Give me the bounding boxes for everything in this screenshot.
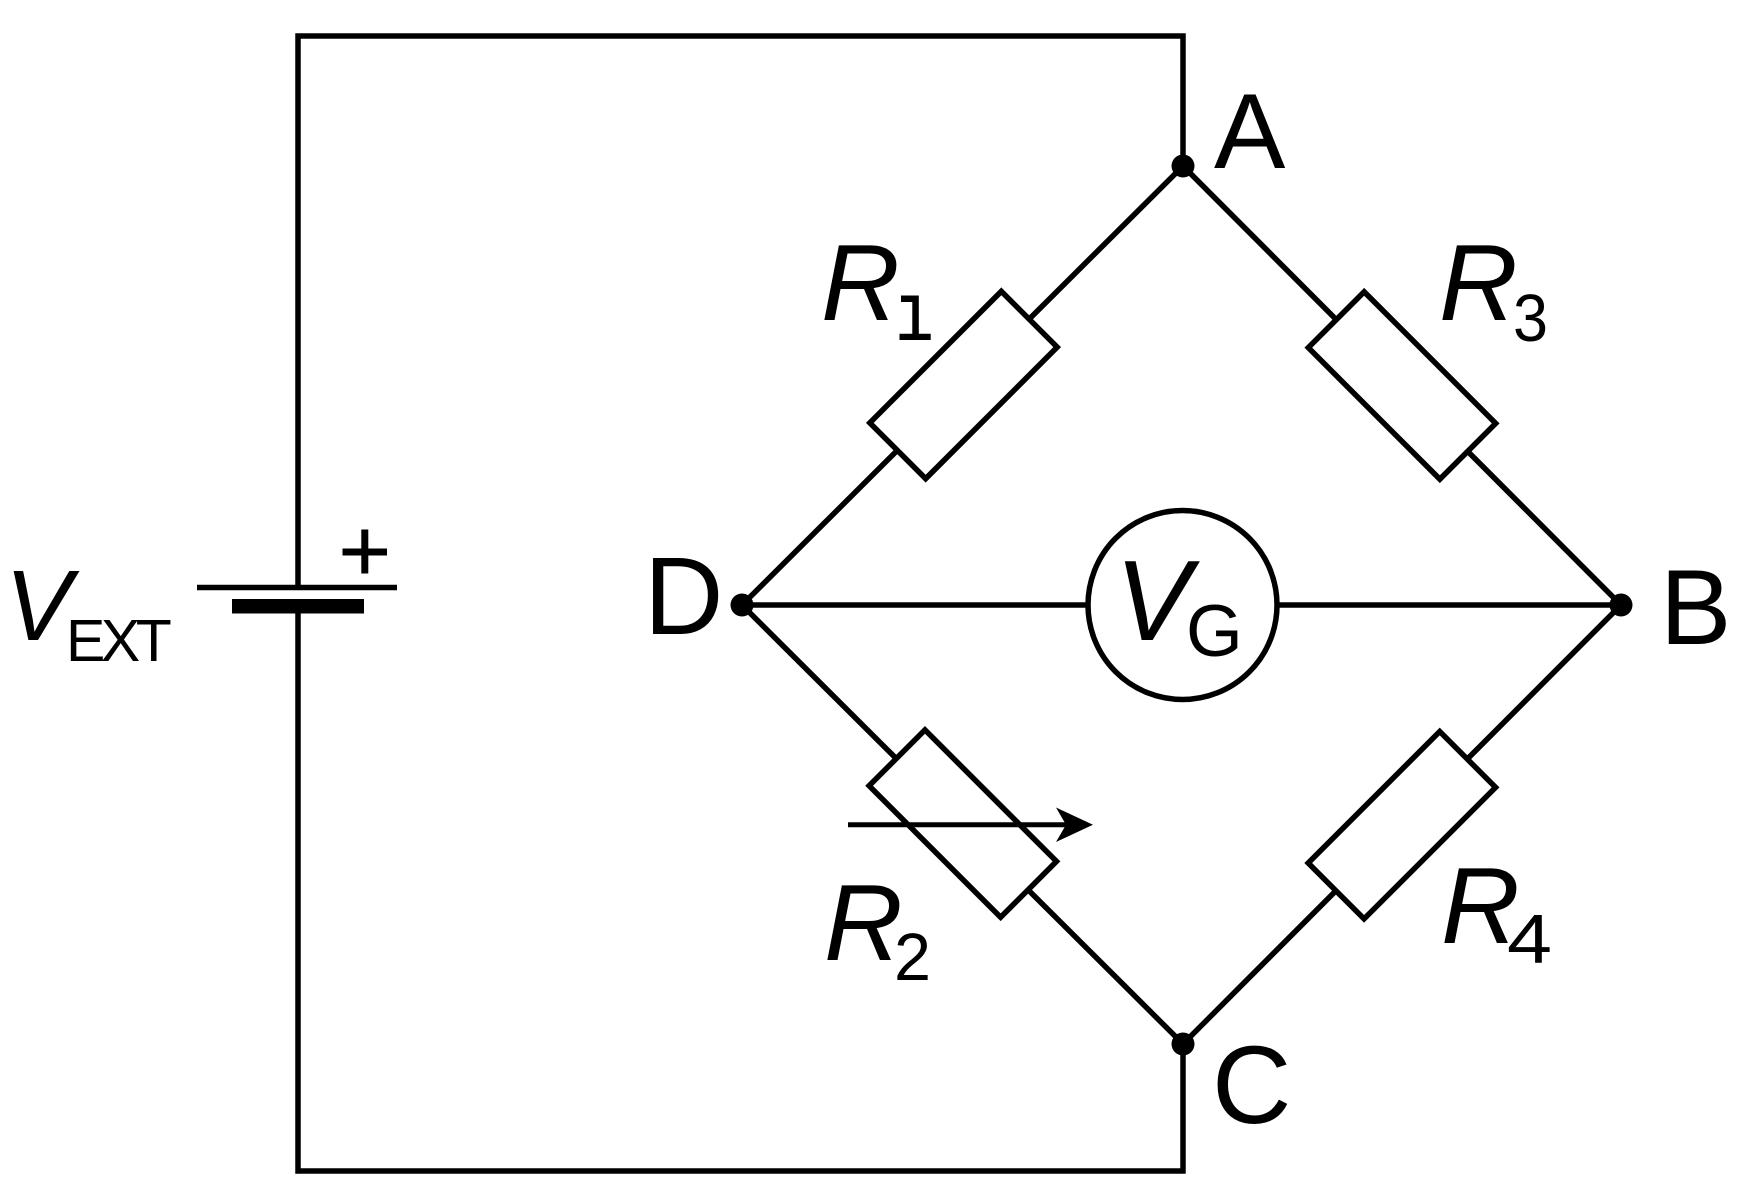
node B junction dot	[1610, 594, 1633, 617]
resistor R1 body	[870, 291, 1057, 478]
node A junction dot	[1172, 155, 1195, 178]
svg-text:R: R	[1439, 222, 1518, 344]
svg-text:D: D	[644, 535, 723, 658]
wire: left vertical + top horizontal to node A	[298, 36, 1183, 587]
node C junction dot	[1172, 1033, 1195, 1056]
battery plus sign	[343, 530, 388, 574]
svg-text:R: R	[824, 862, 903, 984]
battery VEXT negative plate	[232, 599, 364, 614]
svg-text:A: A	[1214, 71, 1286, 191]
svg-text:R: R	[821, 222, 900, 344]
wire: bridge diamond A-B-C-D	[742, 166, 1621, 1044]
resistor R4 body	[1308, 732, 1495, 919]
svg-text:3: 3	[1513, 281, 1548, 356]
svg-text:4: 4	[1507, 900, 1552, 978]
svg-text:2: 2	[894, 920, 931, 995]
battery VEXT positive plate	[197, 585, 397, 591]
node D junction dot	[731, 594, 754, 617]
svg-text:C: C	[1212, 1024, 1291, 1147]
resistor R2 body (variable)	[869, 730, 1056, 917]
svg-text:EXT: EXT	[66, 608, 171, 674]
wire: galvanometer branch D to B	[742, 602, 1621, 608]
svg-text:G: G	[1186, 591, 1243, 672]
resistor R3 body	[1308, 292, 1495, 479]
wire: bottom from battery to node C	[298, 613, 1183, 1171]
galvanometer VG circle	[1088, 511, 1277, 700]
svg-text:B: B	[1660, 547, 1731, 667]
arrow through R2	[848, 822, 1067, 827]
